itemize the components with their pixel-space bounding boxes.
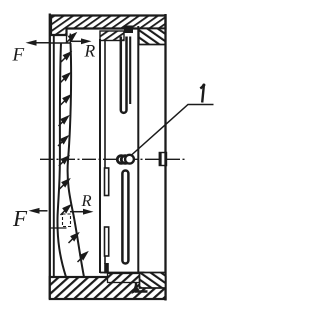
- plate foot stub: [104, 263, 109, 274]
- left wall outer line: [49, 14, 51, 300]
- load tick arrows along spring: [58, 34, 87, 263]
- left channel slot b: [105, 227, 109, 256]
- clamp strip 2 (thin hatched plate under cap): [100, 31, 124, 41]
- force arrow F1 (top): [26, 40, 52, 46]
- bottom right block (back-hatched): [140, 273, 166, 289]
- bracket line: [49, 227, 67, 229]
- upper slot in plate (U-slot): [121, 37, 127, 113]
- reaction arrow R1 (top): [70, 38, 92, 44]
- reaction arrow R2 (middle): [70, 209, 94, 215]
- leaf spring right curve: [68, 43, 84, 277]
- seat line under cap left step: [49, 42, 70, 44]
- right wall outer line: [164, 14, 166, 301]
- clamp ring (back-hatched strip top right): [139, 29, 166, 45]
- lower slot in plate (rounded both ends): [122, 171, 128, 264]
- pivot bracket on right wall: [159, 152, 166, 167]
- cap step inner edge: [66, 35, 68, 43]
- bolt head (black square): [124, 26, 133, 34]
- middle plate right edge: [137, 26, 139, 273]
- bottom seat strip: [108, 274, 145, 283]
- bottom plate (hatched base): [50, 277, 166, 299]
- spring clamp vertical: [69, 34, 71, 44]
- plate bottom seat line: [100, 272, 145, 274]
- dashed detail box: [63, 214, 71, 227]
- leaf spring left curve: [57, 43, 66, 277]
- weld step mark (bottom): [132, 283, 148, 294]
- left wall inner line: [53, 35, 55, 277]
- cap block (top hatched cover): [51, 16, 166, 36]
- middle plate left edge line 1: [99, 39, 101, 273]
- svg-text:F: F: [12, 45, 25, 66]
- middle plate left edge line 2: [104, 41, 106, 265]
- left channel slot a: [105, 168, 109, 196]
- svg-text:R: R: [81, 191, 92, 210]
- svg-text:R: R: [84, 40, 96, 60]
- centerline (horizontal dash-dot axis): [40, 158, 187, 160]
- svg-text:F: F: [12, 206, 28, 231]
- upper slot companion line: [129, 37, 131, 105]
- rivet circles (part 1): [117, 155, 134, 164]
- force arrow F2 (middle): [29, 208, 48, 214]
- label 1 (drawn digit): [200, 84, 205, 103]
- leader line to part 1: [132, 105, 214, 156]
